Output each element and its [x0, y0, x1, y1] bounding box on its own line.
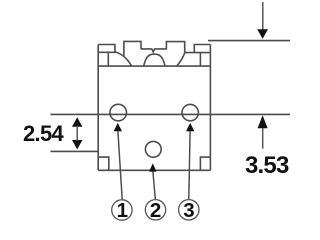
right top tab	[194, 45, 210, 53]
svg-text:2: 2	[150, 199, 161, 222]
left foot notch	[98, 157, 109, 170]
dome 3 arc	[176, 53, 184, 67]
pin hole 2	[145, 141, 161, 157]
right inner divider	[199, 53, 201, 67]
dimension line top right	[208, 40, 290, 42]
left shoulder line	[98, 51, 117, 53]
step line with notch	[141, 42, 185, 53]
svg-text:3.53: 3.53	[245, 152, 289, 179]
body top edge	[98, 65, 210, 67]
leader 3 arrow	[186, 123, 194, 131]
svg-text:1: 1	[117, 199, 128, 222]
right shoulder line	[185, 52, 211, 54]
pin number circle 2	[145, 200, 165, 220]
leader 1 arrow	[114, 123, 122, 131]
3.53 bottom arrow (up)	[258, 115, 268, 128]
svg-text:3: 3	[183, 199, 194, 222]
right foot notch	[200, 157, 210, 170]
leader 1 line	[118, 131, 122, 199]
body bottom edge	[98, 169, 210, 171]
leader 2 arrow	[149, 163, 156, 171]
left inner divider	[107, 52, 109, 66]
dimension line lower left (pin 2 row)	[51, 150, 99, 152]
dome 1 arc	[117, 52, 132, 66]
pin hole 3	[182, 104, 198, 120]
dimension line upper (through pin row 1-3)	[51, 113, 291, 115]
dome 2 half ellipse	[144, 54, 166, 67]
leader 2 line	[153, 172, 155, 200]
2.54 dimension double arrow	[72, 117, 82, 149]
leader 3 line	[189, 131, 190, 199]
3.53 top arrow (down)	[262, 2, 264, 30]
pin hole 1	[110, 104, 127, 121]
body outline left edge	[97, 45, 99, 171]
pin number circle 1	[112, 200, 132, 220]
middle tab U1	[124, 41, 141, 56]
body right edge	[209, 45, 211, 171]
left top tab	[98, 45, 115, 53]
pin number circle 3	[179, 200, 199, 220]
svg-text:2.54: 2.54	[23, 121, 64, 146]
